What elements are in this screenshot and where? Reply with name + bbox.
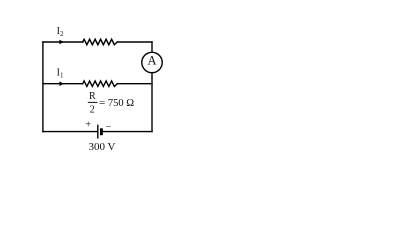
arrow for current I2 [59,40,64,45]
svg-text:+: + [85,119,91,130]
svg-text:A: A [147,53,156,67]
resistor R1 (middle branch, R/2) [83,81,118,87]
resistor R2 (top branch, R/2) [83,39,118,45]
wire bottom horizontal (left of battery) [43,131,98,133]
svg-text:R: R [89,91,96,102]
wire left vertical [42,42,44,132]
svg-text:−: − [106,121,112,132]
wire right vertical above ammeter [151,42,153,52]
svg-text:300 V: 300 V [89,141,116,153]
battery V1 short thick plate (-) [100,128,103,135]
arrow for current I1 [59,81,64,86]
battery V1 long plate (+) [97,125,99,139]
wire top horizontal (left of resistor R2) [43,41,83,43]
fraction bar [88,101,98,103]
wire right vertical below ammeter [151,73,153,132]
ammeter U1 circle [142,52,162,72]
wire middle horizontal (right of resistor R1) [117,83,152,85]
svg-text:= 750 Ω: = 750 Ω [99,98,134,109]
wire top horizontal (right of resistor R2) [117,41,152,43]
svg-text:2: 2 [90,105,95,116]
wire bottom horizontal (right of battery) [103,131,152,133]
wire middle horizontal (left of resistor R1) [43,83,83,85]
